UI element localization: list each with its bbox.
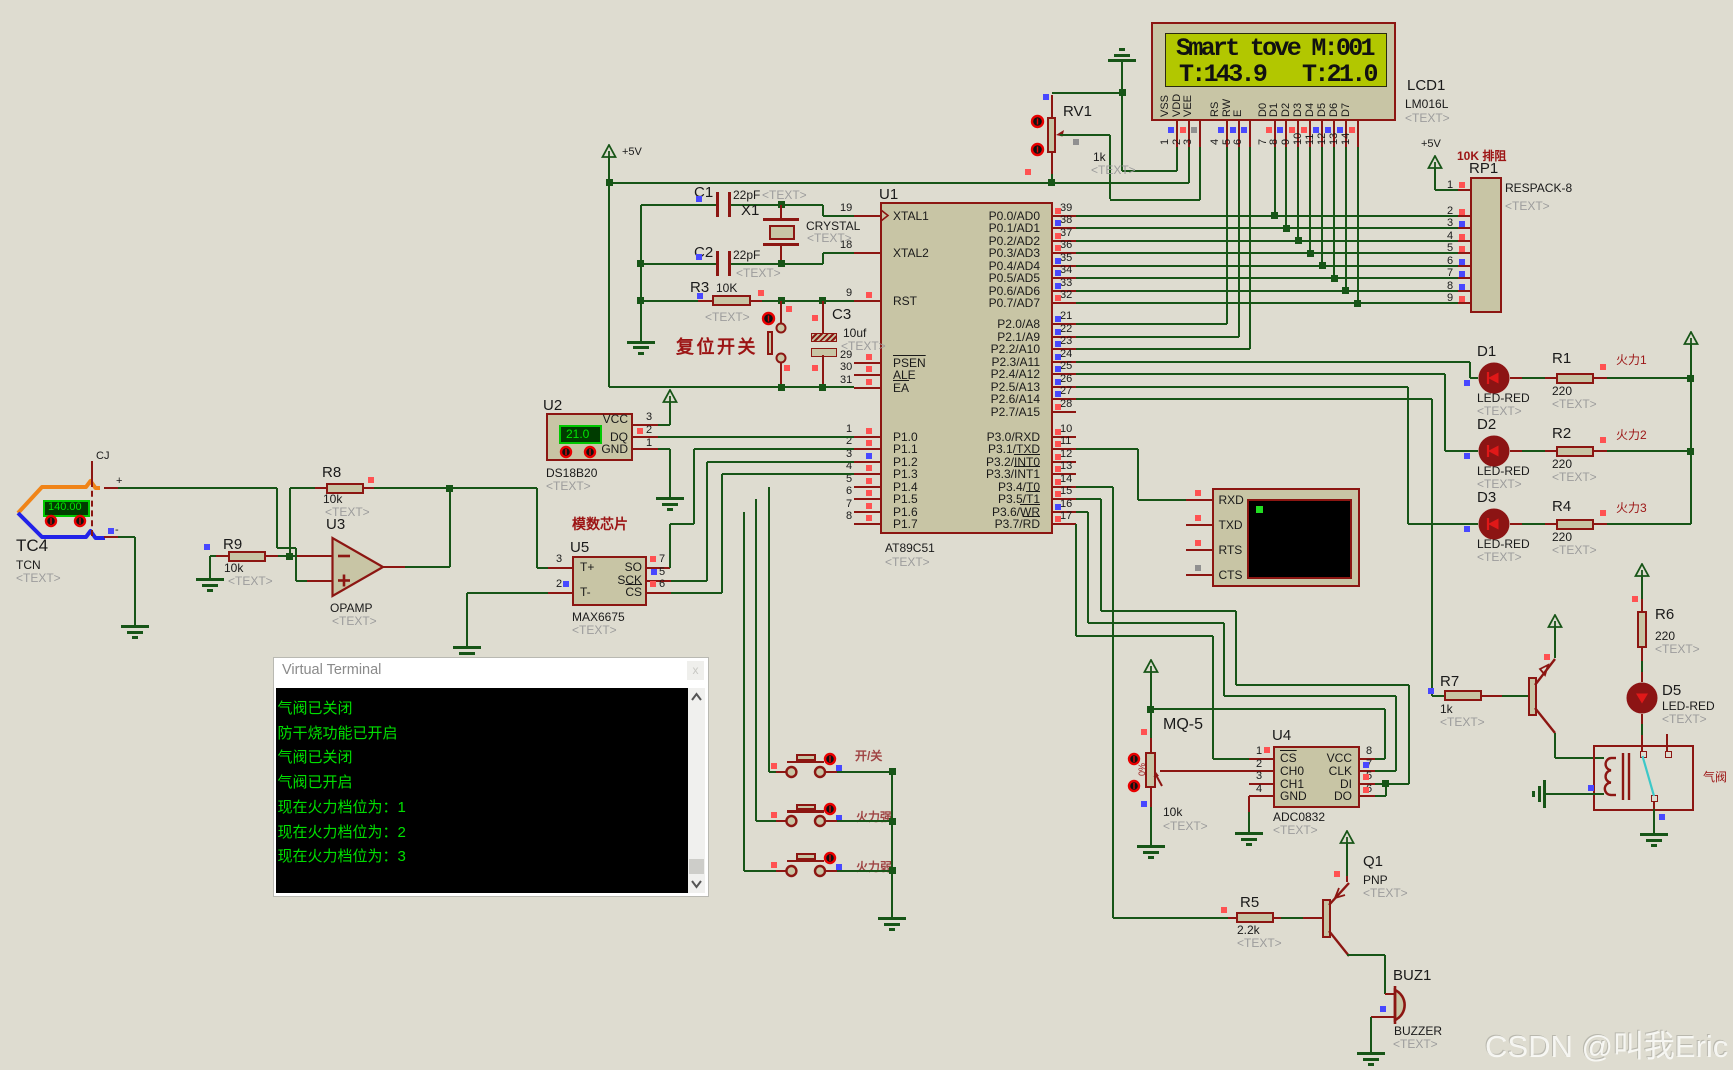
wire noninverting input path <box>296 580 333 582</box>
U1 pin 23 P2.2/A10 <box>1053 348 1076 350</box>
resistor R2 220 <box>1556 446 1594 457</box>
wire <box>1641 714 1643 724</box>
ground <box>453 646 481 649</box>
U1 pin 29 PSEN <box>854 362 880 364</box>
wire P2.4 to D2 <box>1076 373 1445 375</box>
wire <box>1122 170 1177 172</box>
wire EA rail <box>608 183 610 388</box>
wire button2 right <box>825 820 837 822</box>
wire <box>658 424 670 426</box>
U1 pin 5 P1.4 <box>854 486 880 488</box>
U4 pin 8 VCC <box>1360 758 1375 760</box>
wire P0.1 bus <box>1076 227 1458 229</box>
U4 pin 1 CS <box>1249 758 1273 760</box>
wire DQ to P1.0 <box>658 436 854 438</box>
transistor Q2 NPN relay driver <box>1528 677 1537 716</box>
TC display 140.00 <box>43 500 90 517</box>
transistor Q1 PNP <box>1322 899 1331 938</box>
wire SO to P1.1 <box>669 524 671 569</box>
wire button1 left <box>776 771 787 773</box>
power +5V <box>1143 659 1159 674</box>
U1 pin 21 P2.0/A8 <box>1053 323 1076 325</box>
wire D5 <box>1333 147 1335 278</box>
wire switch to ground <box>1653 801 1655 809</box>
serial terminal block <box>1212 488 1361 588</box>
RP1 pin 6 <box>1458 265 1470 267</box>
ground <box>121 625 149 628</box>
wire collector to relay coil <box>1554 733 1556 758</box>
U5 pin 7 SO <box>647 567 671 569</box>
U1 pin 33 P0.6/AD6 <box>1053 290 1076 292</box>
RP1 pin 1 <box>1458 189 1470 191</box>
ground (LCD VSS) <box>1108 59 1136 62</box>
wire <box>1188 147 1190 183</box>
U4 ADC0832 <box>1273 746 1361 808</box>
U1 pin 30 ALE <box>854 374 880 376</box>
wire <box>1510 377 1522 379</box>
wire <box>1274 917 1281 919</box>
RP1 pin 2 <box>1458 215 1470 217</box>
power +5V <box>1683 331 1699 346</box>
U1 pin 1 P1.0 <box>854 436 880 438</box>
模数芯片 label <box>572 514 628 534</box>
wire <box>1199 147 1201 200</box>
U5 pin 5 SCK <box>647 580 672 582</box>
U4 pin 4 GND <box>1249 795 1273 797</box>
wire LED +5V bus <box>1690 345 1692 524</box>
wire <box>1060 134 1110 136</box>
wire P2.1 <box>1076 336 1239 338</box>
wire P3.1 TXD to RXD <box>1076 448 1138 450</box>
U5 pin 6 CS <box>647 592 672 594</box>
wire P3.4 to R5 <box>1076 486 1113 488</box>
LCD pin 14 D7 <box>1357 119 1359 147</box>
LED D1 <box>1478 362 1510 394</box>
resistor R4 220 <box>1556 519 1594 530</box>
wire <box>1110 199 1201 201</box>
resistor R6 220 <box>1634 563 1650 578</box>
wire SCK to P1.2 <box>671 580 707 582</box>
wire P3.7 to U4 CS <box>1075 524 1077 636</box>
junction <box>446 485 453 492</box>
capacitor C1 22pF <box>641 204 719 206</box>
U1 pin 12 P3.2/|INT0 <box>1053 461 1076 463</box>
CSDN watermark <box>1485 1021 1728 1066</box>
U1 pin 37 P0.2/AD2 <box>1053 240 1076 242</box>
U4 pin 2 CH0 <box>1249 770 1273 772</box>
U4 pin 5 DI <box>1360 783 1375 785</box>
terminal scrollbar <box>688 688 705 893</box>
wire <box>1594 377 1607 379</box>
U1 pin 35 P0.4/AD4 <box>1053 265 1076 267</box>
wire collector to buzzer <box>1347 954 1385 956</box>
junction <box>286 553 293 560</box>
serial pin RXD <box>1186 499 1212 501</box>
U4 pin 6 DO <box>1360 795 1375 797</box>
crystal X1 <box>780 205 782 220</box>
wire P0.4 bus <box>1076 265 1458 267</box>
wire <box>823 252 855 254</box>
wire D0 <box>1274 147 1276 216</box>
wire <box>1150 673 1152 738</box>
wire RS <box>1226 147 1228 324</box>
U1 pin 4 P1.3 <box>854 473 880 475</box>
wire P0.5 bus <box>1076 277 1458 279</box>
wire emitter +5V <box>1346 876 1348 882</box>
wire <box>822 205 824 216</box>
ground <box>1640 833 1668 836</box>
wire ground leg <box>640 205 642 341</box>
wire <box>1510 523 1522 525</box>
wire <box>1051 153 1053 175</box>
wire <box>1554 628 1556 658</box>
push button 开/关 <box>783 764 829 780</box>
LCD pin 3 VEE <box>1199 119 1201 147</box>
wire P2.5 to D3 <box>1076 386 1408 388</box>
ground <box>1235 832 1263 835</box>
wire <box>1150 788 1152 807</box>
relay switch contacts <box>1640 751 1647 758</box>
wire CS to P1.3 <box>671 592 722 594</box>
wire T- to ground <box>467 592 548 594</box>
wire D1 <box>1285 147 1287 228</box>
U1 pin 28 P2.7/A15 <box>1053 411 1076 413</box>
U1 pin 11 P3.1/TXD <box>1053 448 1076 450</box>
U1 pin 38 P0.1/AD1 <box>1053 227 1076 229</box>
U2 pin 1 GND <box>633 448 658 450</box>
wire P0.0 bus <box>1076 215 1458 217</box>
op-amp U3 <box>330 534 390 602</box>
wire <box>1052 92 1122 94</box>
serial pin CTS <box>1186 574 1212 576</box>
LCD pin 1 VSS <box>1176 119 1178 147</box>
U1 pin 25 P2.4/A12 <box>1053 373 1076 375</box>
wire <box>1482 695 1502 697</box>
wire P0.3 bus <box>1076 252 1458 254</box>
wire P2.0 <box>1076 323 1227 325</box>
U1 pin 16 P3.6/|WR <box>1053 511 1076 513</box>
RP1 pin 9 <box>1458 302 1470 304</box>
RP1 pin 3 <box>1458 227 1470 229</box>
resistor R3 10K <box>641 300 698 302</box>
RP1 pin 7 <box>1458 277 1470 279</box>
wire button3 left <box>776 870 787 872</box>
wire TC+ to opamp <box>104 487 118 489</box>
U1 pin 14 P3.4/T0 <box>1053 486 1076 488</box>
wire <box>609 182 1189 184</box>
wire <box>658 448 670 450</box>
serial pin RTS <box>1186 549 1212 551</box>
wire P2.3 to D1 <box>1076 361 1470 363</box>
reset switch 复位开关 <box>780 301 782 324</box>
resistor R9 10k <box>210 555 216 557</box>
wire <box>1641 648 1643 661</box>
wire <box>822 253 824 264</box>
U1 pin 10 P3.0/RXD <box>1053 436 1076 438</box>
wire D6 <box>1345 147 1347 291</box>
buzzer BUZ1 <box>1392 984 1420 1026</box>
LCD pin 4 RS <box>1226 119 1228 147</box>
relay fixed contact <box>1666 734 1668 751</box>
wire button1 right <box>825 771 837 773</box>
U1 pin 32 P0.7/AD7 <box>1053 302 1076 304</box>
push button 火力强 <box>783 813 829 829</box>
U1 pin 18 XTAL2 <box>854 252 880 254</box>
LCD1 LM016L display module <box>1151 22 1396 121</box>
U1 pin 39 P0.0/AD0 <box>1053 215 1076 217</box>
LCD pin 8 D1 <box>1285 119 1287 147</box>
wire D4 <box>1321 147 1323 266</box>
wire D7 <box>1357 147 1359 303</box>
wire <box>209 556 211 578</box>
ground <box>1543 780 1546 808</box>
U2 pin 3 VCC <box>633 424 658 426</box>
power +5V <box>662 389 678 404</box>
U1 pin 36 P0.3/AD3 <box>1053 252 1076 254</box>
U1 pin 22 P2.1/A9 <box>1053 336 1076 338</box>
wire <box>608 158 610 183</box>
LCD pin 9 D2 <box>1297 119 1299 147</box>
wire TC- to ground <box>104 536 118 538</box>
U1 pin 26 P2.5/A13 <box>1053 386 1076 388</box>
LCD pin 10 D3 <box>1309 119 1311 147</box>
U4 pin 7 CLK <box>1360 770 1375 772</box>
resistor R5 2.2k <box>1228 917 1236 919</box>
wire DI DO tie <box>1375 783 1386 785</box>
ground <box>878 917 906 920</box>
U5 pin 2 T- <box>548 592 572 594</box>
ground <box>1357 1052 1385 1055</box>
U1 pin 17 P3.7/|RD <box>1053 523 1076 525</box>
wire P2.2 <box>1076 348 1250 350</box>
LCD pin 13 D6 <box>1345 119 1347 147</box>
U1 pin 27 P2.6/A14 <box>1053 398 1076 400</box>
RV1 1k potentiometer <box>1047 117 1056 153</box>
wire P2.6 to R7 <box>1076 398 1432 400</box>
U1 AT89C51 microcontroller <box>880 202 1054 534</box>
wire <box>1371 1016 1395 1018</box>
U1 pin 19 XTAL1 <box>854 215 880 217</box>
U1 pin 24 P2.3/A11 <box>1053 361 1076 363</box>
U1 pin 3 P1.2 <box>854 461 880 463</box>
wire button bus <box>891 772 893 918</box>
power +5V <box>601 144 617 159</box>
U4 pin 3 CH1 <box>1249 783 1273 785</box>
serial pin TXD <box>1186 524 1212 526</box>
wire P0.6 bus <box>1076 290 1458 292</box>
wire P0.7 bus <box>1076 302 1458 304</box>
U2 pin 2 DQ <box>633 436 658 438</box>
wire <box>1434 169 1436 190</box>
wire coil bottom to ground <box>1544 793 1604 795</box>
U5 pin 3 T+ <box>548 567 572 569</box>
wire to U5 T+ <box>450 487 537 489</box>
thermocouple TC4 TCN <box>10 475 130 545</box>
LED D5 <box>1626 682 1658 714</box>
RP1 pin 4 <box>1458 240 1470 242</box>
power +5V <box>1547 614 1563 629</box>
U1 pin 31 EA <box>854 387 880 389</box>
capacitor C3 10uf <box>822 301 824 333</box>
U1 pin 6 P1.5 <box>854 498 880 500</box>
wire inverting input <box>278 555 333 557</box>
power +5V <box>1339 830 1355 845</box>
wire <box>1594 450 1607 452</box>
U1 pin 15 P3.5/|T1 <box>1053 498 1076 500</box>
ground <box>627 341 655 344</box>
U1 pin 13 P3.3/|INT1 <box>1053 473 1076 475</box>
wire U4 GND <box>1248 796 1250 812</box>
MQ-5 gas sensor pot <box>1150 738 1152 752</box>
wire <box>1121 62 1123 171</box>
LED D2 <box>1478 435 1510 467</box>
U1 pin 8 P1.7 <box>854 523 880 525</box>
wire E <box>1249 147 1251 349</box>
U1 pin 2 P1.1 <box>854 448 880 450</box>
wire <box>1051 174 1053 183</box>
relay 气阀 <box>1593 745 1694 811</box>
U2 DS18B20 temperature sensor <box>546 413 633 461</box>
LCD pin 11 D4 <box>1321 119 1323 147</box>
power +5V <box>1427 155 1443 170</box>
RV1 wiper <box>1054 128 1068 142</box>
wire opamp output <box>383 566 405 568</box>
Virtual Terminal window <box>273 657 709 897</box>
wire <box>1109 135 1111 200</box>
resistor R1 220 <box>1556 373 1594 384</box>
U1 pin 9 RST <box>854 300 880 302</box>
wire <box>1435 189 1458 191</box>
U1 pin 34 P0.5/AD5 <box>1053 277 1076 279</box>
U5 MAX6675 thermocouple ADC <box>572 556 647 606</box>
LCD pin 6 E <box>1249 119 1251 147</box>
wire P3.5 to U4 DI/DO <box>1076 498 1101 500</box>
LED D3 <box>1478 508 1510 540</box>
RP1 pin 8 <box>1458 290 1470 292</box>
wire RW <box>1238 147 1240 337</box>
wire button2 left <box>776 820 787 822</box>
wire <box>1051 95 1053 117</box>
wire <box>1594 523 1607 525</box>
RP1 pin 5 <box>1458 252 1470 254</box>
push button 火力弱 <box>783 863 829 879</box>
wire <box>1176 147 1178 171</box>
LCD pin 5 RW <box>1238 119 1240 147</box>
wire <box>1510 450 1522 452</box>
ground <box>656 497 684 500</box>
RP1 RESPACK-8 resistor pack <box>1470 177 1502 313</box>
CJ cold junction line <box>91 461 93 481</box>
wire P3.6 to U4 CLK <box>1076 511 1088 513</box>
U1 pin 7 P1.6 <box>854 511 880 513</box>
wire P0.2 bus <box>1076 240 1458 242</box>
wire to U4 VCC <box>1151 708 1385 710</box>
wire <box>781 204 823 206</box>
capacitor C2 22pF <box>641 263 719 265</box>
wire D2 <box>1297 147 1299 241</box>
resistor R8 10k feedback <box>289 488 291 556</box>
wire MQ5 wiper to CH0 <box>1160 770 1249 772</box>
resistor R7 1k <box>1444 690 1482 701</box>
ground <box>1137 845 1165 848</box>
wire <box>823 215 855 217</box>
wire button3 right <box>825 870 837 872</box>
LCD pin 7 D0 <box>1274 119 1276 147</box>
wire D3 <box>1309 147 1311 253</box>
ground <box>196 578 224 581</box>
wire VCC stub <box>1375 758 1385 760</box>
LCD pin 2 VDD <box>1188 119 1190 147</box>
LCD pin 12 D5 <box>1333 119 1335 147</box>
